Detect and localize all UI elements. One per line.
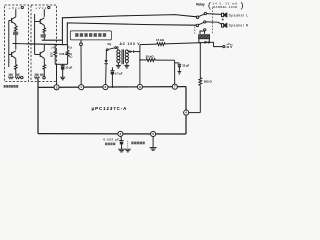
- label R7 value: [35, 74, 39, 76]
- node A: [54, 44, 56, 46]
- resistor 560: [199, 43, 202, 113]
- node: [139, 59, 141, 61]
- node: [112, 86, 114, 88]
- svg-text:MARBEL 404D: MARBEL 404D: [213, 5, 238, 9]
- resistor R6: [43, 58, 46, 76]
- pin 6: [103, 85, 108, 90]
- capacitor 0.022uF: [119, 136, 123, 149]
- transistor Q4: [35, 51, 45, 59]
- diode D2: [127, 50, 140, 53]
- pin 8: [137, 84, 142, 89]
- diode D1: [104, 51, 108, 85]
- ground: [125, 149, 131, 152]
- wire: [43, 45, 45, 51]
- svg-text:AC 100 V: AC 100 V: [120, 42, 141, 46]
- svg-text:Speaker R: Speaker R: [229, 24, 249, 28]
- svg-text:4.7 µF: 4.7 µF: [115, 72, 123, 76]
- capacitor 4.7uF: [110, 67, 114, 87]
- wire: [42, 15, 197, 41]
- mechanical link dashed 2: [194, 27, 196, 34]
- svg-text:20 kΩ: 20 kΩ: [146, 55, 155, 59]
- pin 4: [184, 110, 189, 115]
- resistor 56k L: [54, 44, 57, 64]
- ground: [60, 77, 65, 80]
- wire coil stubs: [199, 39, 209, 43]
- pin 5: [151, 131, 156, 136]
- wire: [188, 112, 200, 114]
- resistor R2: [15, 58, 18, 76]
- transformer T1: [117, 49, 129, 64]
- transistor Q1: [9, 17, 16, 25]
- ground: [124, 63, 129, 68]
- svg-text:560 Ω: 560 Ω: [204, 80, 213, 84]
- speaker L icon: [222, 12, 228, 17]
- wire base column L: [8, 21, 10, 68]
- capacitor 33uF: [61, 64, 65, 77]
- amplifier unit L dashed box: [5, 5, 29, 82]
- resistor R1: [15, 24, 18, 49]
- +Vcc terminal L: [9, 6, 24, 10]
- speaker R icon: [222, 23, 228, 28]
- svg-text:): ): [241, 0, 244, 10]
- svg-text:41 V: 41 V: [226, 45, 232, 49]
- wire: [80, 46, 82, 86]
- svg-text:15 kΩ: 15 kΩ: [156, 38, 165, 42]
- label R4 value: [15, 74, 19, 76]
- amplifier unit R dashed box: [31, 5, 57, 82]
- wire: [43, 9, 45, 17]
- svg-text:56kΩ: 56kΩ: [69, 52, 72, 59]
- svg-text:μPC1237C-A: μPC1237C-A: [92, 106, 128, 111]
- wire: [56, 64, 58, 85]
- terminal +V: [223, 46, 225, 48]
- wire: [55, 63, 67, 65]
- label kanji terminal: [75, 33, 106, 37]
- svg-text:33 µF: 33 µF: [65, 66, 72, 70]
- node B: [200, 42, 202, 44]
- relay contact 2: [196, 21, 221, 27]
- label mylar kanji: [105, 143, 115, 146]
- transistor Q3: [35, 18, 45, 26]
- wire pin5 to ground: [152, 136, 154, 147]
- wire W3 inside box1: [13, 43, 27, 45]
- resistor 20k: [140, 59, 175, 62]
- ground: [118, 149, 125, 152]
- resistor R4: [15, 77, 20, 79]
- label bias R: [41, 34, 46, 37]
- +Vcc terminal R: [35, 6, 50, 10]
- pin 1: [79, 85, 84, 90]
- resistor R7: [34, 77, 39, 79]
- wire 15k net: [140, 42, 214, 45]
- output terminal R: [43, 77, 45, 79]
- relay contact 1: [196, 13, 221, 19]
- IC uPC1237C-A box: [38, 79, 186, 134]
- mechanical link dashed: [211, 8, 213, 34]
- node: [222, 19, 224, 21]
- label unit L kanji: [4, 85, 19, 88]
- svg-text:+Vcc: +Vcc: [9, 6, 20, 10]
- relay coil: [199, 31, 210, 39]
- wire: [26, 23, 196, 45]
- svg-text:Relay: Relay: [196, 2, 205, 6]
- svg-text:0.56 kΩ: 0.56 kΩ: [59, 52, 68, 56]
- svg-text:Ry: Ry: [108, 42, 112, 46]
- svg-text:0.022 µF: 0.022 µF: [104, 137, 120, 141]
- svg-text:+Vcc: +Vcc: [35, 6, 46, 10]
- wire: [15, 9, 17, 17]
- node: [62, 44, 64, 46]
- wire base column R: [34, 14, 36, 55]
- label R8 value: [40, 74, 44, 76]
- wire: [61, 40, 63, 44]
- terminal node: [80, 40, 83, 46]
- pin 7: [172, 84, 177, 89]
- node: [198, 42, 199, 43]
- svg-text:(: (: [208, 0, 211, 10]
- label option kanji: [131, 142, 145, 145]
- pin 3: [118, 131, 123, 136]
- svg-text:22 µF: 22 µF: [182, 63, 189, 67]
- overload detect terminal box: [70, 31, 111, 40]
- capacitor 22uF: [175, 63, 182, 71]
- ground: [150, 148, 157, 151]
- ground: [178, 72, 182, 75]
- relay contact NC: [204, 29, 206, 31]
- resistor 56k R: [66, 45, 69, 65]
- label relay spec: [208, 0, 244, 10]
- label R3 value: [9, 74, 13, 76]
- pin 2: [54, 85, 59, 90]
- diode D3 flyback: [205, 41, 209, 44]
- output terminal L: [21, 76, 23, 78]
- resistor R3: [8, 77, 13, 79]
- ground: [116, 63, 121, 68]
- transistor Q2: [9, 51, 16, 59]
- wire pin7: [174, 60, 176, 86]
- node: [209, 42, 210, 43]
- label bias R1: [13, 32, 18, 35]
- wire +V: [214, 42, 223, 46]
- relay contact Ry: [106, 46, 118, 50]
- capacitor optional dashed: [127, 141, 129, 149]
- wire: [139, 45, 141, 86]
- svg-text:Speaker L: Speaker L: [229, 13, 249, 17]
- resistor R5: [43, 25, 46, 40]
